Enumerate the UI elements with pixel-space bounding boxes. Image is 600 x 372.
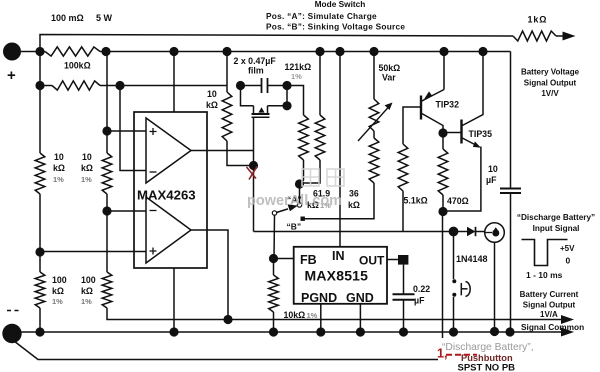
svg-text:Signal Output: Signal Output (523, 301, 576, 310)
wire 121k top lead (287, 86, 304, 116)
resistor 121k 1% (299, 115, 309, 160)
svg-text:kΩ: kΩ (206, 100, 218, 110)
diode D1 1N4148 (458, 231, 467, 233)
svg-text:Mode Switch: Mode Switch (315, 0, 366, 9)
wire op2 output down to current line (191, 230, 228, 320)
wire op1 output (191, 150, 254, 152)
wire terminal down to common (494, 242, 496, 332)
svg-text:Pos. “B”: Sinking Voltage Sour: Pos. “B”: Sinking Voltage Source (266, 22, 405, 32)
op-amp U1b (146, 197, 191, 263)
svg-text:Input Signal: Input Signal (533, 224, 580, 233)
arrow battery current output (561, 315, 574, 324)
wire col x40 (35, 47, 44, 56)
svg-text:Signal Output: Signal Output (524, 79, 577, 88)
svg-text:film: film (248, 66, 264, 76)
svg-text:1V/V: 1V/V (541, 89, 559, 98)
transistor Q1 (p-MOSFET) (254, 106, 268, 114)
wire bus segment (100, 51, 511, 53)
svg-text:2 x 0.47µF: 2 x 0.47µF (234, 56, 277, 66)
svg-text:1N4148: 1N4148 (456, 254, 488, 264)
wire PGND pin (320, 304, 322, 332)
wire 10k bottom to common (273, 312, 275, 332)
wire 10k(227) top (222, 47, 231, 56)
switch contact B (301, 217, 305, 221)
svg-text:powerAll.com: powerAll.com (247, 193, 342, 209)
svg-text:1%: 1% (81, 175, 92, 184)
svg-text:5 W: 5 W (96, 13, 113, 23)
svg-text:10: 10 (207, 89, 217, 99)
svg-text:“Discharge Battery”: “Discharge Battery” (517, 213, 595, 222)
wire right vertical battery+ branch (510, 52, 512, 189)
wire node A to contact (299, 184, 301, 203)
capacitor 10uF (500, 188, 521, 190)
resistor 10k 1% (second) (102, 153, 112, 194)
svg-text:100 mΩ: 100 mΩ (51, 13, 84, 23)
wire box supply pin top (169, 47, 178, 56)
junction square OUT (398, 255, 408, 265)
wire 10uF cap to signal common (510, 193, 512, 332)
node mosfet right (282, 101, 291, 110)
pulse waveform (522, 240, 568, 266)
svg-text:GND: GND (346, 291, 374, 305)
svg-text:µF: µF (414, 296, 425, 306)
svg-text:kΩ: kΩ (81, 286, 93, 296)
op-amp U1a (146, 118, 191, 183)
node cap-mosfet left (236, 81, 245, 90)
wire FB pin (269, 254, 278, 263)
wire gate node vertical (253, 117, 255, 231)
terminal discharge-battery input (485, 223, 505, 243)
switch contact A (297, 203, 301, 207)
svg-text:OUT: OUT (359, 254, 385, 268)
svg-text:1kΩ: 1kΩ (528, 15, 548, 25)
node diode (449, 227, 459, 237)
svg-text:PGND: PGND (301, 291, 337, 305)
wire op1 +input (107, 130, 146, 132)
potentiometer 50k Var (369, 99, 379, 131)
wire TIP32 base / 5.1k top (403, 107, 421, 144)
svg-text:10: 10 (54, 152, 64, 162)
svg-text:TIP35: TIP35 (469, 129, 493, 139)
wire bottom return (14, 341, 438, 360)
wire op2 +input (40, 251, 146, 253)
wire GND pin (359, 304, 361, 332)
svg-text:0.22: 0.22 (413, 284, 430, 294)
wire 470 node down to pushbutton return (442, 212, 444, 339)
svg-text:100: 100 (52, 275, 67, 285)
svg-text:1%: 1% (81, 297, 92, 306)
svg-text:36: 36 (349, 189, 359, 199)
svg-text:kΩ: kΩ (53, 163, 65, 173)
wire col x107 (101, 47, 110, 56)
svg-text:µF: µF (486, 175, 497, 185)
wire top (battery voltage tap) (40, 35, 513, 52)
svg-text:kΩ: kΩ (348, 200, 360, 210)
svg-text:1%: 1% (291, 72, 302, 81)
regulator U2 MAX8515 (294, 247, 387, 304)
wire contact B to 36k (305, 183, 375, 219)
capacitor 2x0.47uF film (241, 85, 262, 87)
pushbutton SPST NO (452, 279, 456, 283)
wire 61.9k top (315, 47, 324, 56)
wire row85 lead (35, 81, 44, 90)
svg-text:1 - 10 ms: 1 - 10 ms (526, 270, 563, 280)
svg-text:kΩ: kΩ (81, 163, 93, 173)
resistor 1k (513, 31, 556, 41)
svg-text:100: 100 (81, 275, 96, 285)
svg-text:1%: 1% (52, 297, 63, 306)
resistor 36k (373, 131, 375, 138)
svg-text:“B”: “B” (287, 222, 302, 232)
svg-text:470Ω: 470Ω (447, 196, 469, 206)
svg-text:10: 10 (82, 152, 92, 162)
svg-text:100kΩ: 100kΩ (64, 61, 91, 71)
svg-text:50kΩ: 50kΩ (379, 63, 401, 73)
svg-text:Signal Common: Signal Common (521, 322, 584, 332)
wire switch pole to FB node (273, 215, 276, 258)
svg-text:IN: IN (332, 249, 345, 263)
resistor 470 ohm (442, 133, 444, 149)
node A (295, 179, 304, 188)
wire box ground pin bottom (173, 268, 175, 332)
wire 10k bottom to gate node (227, 141, 254, 166)
transistor Q2 TIP32 (420, 96, 422, 120)
wire OUT pin (387, 259, 398, 261)
svg-text:+: + (7, 67, 16, 84)
svg-text:kΩ: kΩ (52, 286, 64, 296)
wire 100k-2 bottom to current-output line (107, 308, 561, 320)
svg-text:1%: 1% (307, 311, 318, 320)
svg-text:TIP32: TIP32 (436, 100, 460, 110)
wire main bus (battery +) (21, 51, 45, 53)
wire signal common bus (21, 331, 561, 333)
wire pushbutton column (453, 232, 455, 280)
svg-text:SPST NO PB: SPST NO PB (458, 363, 516, 372)
resistor 100k 1% (left) (35, 272, 45, 308)
svg-text:Var: Var (382, 73, 396, 83)
wire feedback node to 10k column (120, 85, 227, 87)
svg-text:“Discharge Battery”,: “Discharge Battery”, (442, 342, 534, 353)
transistor Q3 TIP35 (438, 128, 447, 137)
resistor 10k 1% (left) (35, 153, 45, 194)
resistor 5.1k (398, 144, 408, 191)
battery + terminal (3, 43, 21, 61)
wire (39, 194, 41, 272)
resistor 100k (horizontal) (52, 81, 100, 90)
svg-text:+5V: +5V (560, 244, 575, 253)
svg-text:10kΩ: 10kΩ (284, 310, 306, 320)
svg-text:10: 10 (488, 164, 498, 174)
battery - terminal (2, 324, 21, 343)
resistor 100m ohm 5W (45, 47, 100, 56)
resistor 100k 1% (second) (102, 272, 112, 308)
wire row85 to feedback node (100, 85, 120, 87)
svg-text:1V/A: 1V/A (540, 310, 558, 319)
wire (39, 308, 41, 332)
svg-text:FB: FB (300, 253, 317, 267)
wire op2 -input (107, 210, 146, 212)
wire (106, 194, 108, 272)
svg-text:Battery Current: Battery Current (520, 290, 579, 299)
svg-text:121kΩ: 121kΩ (285, 62, 312, 72)
wire gate node to 5.1k and diode (254, 231, 454, 233)
op-amp package box MAX4263 (134, 112, 207, 268)
wire 121k bottom to node A (300, 160, 304, 184)
switch blade (272, 211, 276, 215)
resistor 10k (gate) (222, 92, 232, 141)
wire 5.1k bottom (402, 191, 404, 232)
svg-text:0: 0 (566, 256, 571, 266)
capacitor 0.22uF (403, 265, 405, 294)
svg-text:Battery Voltage: Battery Voltage (521, 68, 580, 77)
resistor 10k 1% (FB) (273, 259, 275, 276)
svg-text:5.1kΩ: 5.1kΩ (404, 196, 428, 206)
wire mosfet branch (241, 86, 254, 106)
wire op1 feedback (120, 86, 146, 171)
wire IN pin (335, 47, 344, 56)
wire 61.9k bottom to node A (302, 160, 320, 183)
resistor 61.9k 1% (315, 115, 325, 160)
svg-text:Pos. “A”: Simulate Charge: Pos. “A”: Simulate Charge (266, 11, 377, 21)
svg-text:MAX8515: MAX8515 (305, 268, 369, 284)
svg-text:1%: 1% (53, 175, 64, 184)
wire pot top (369, 47, 378, 56)
